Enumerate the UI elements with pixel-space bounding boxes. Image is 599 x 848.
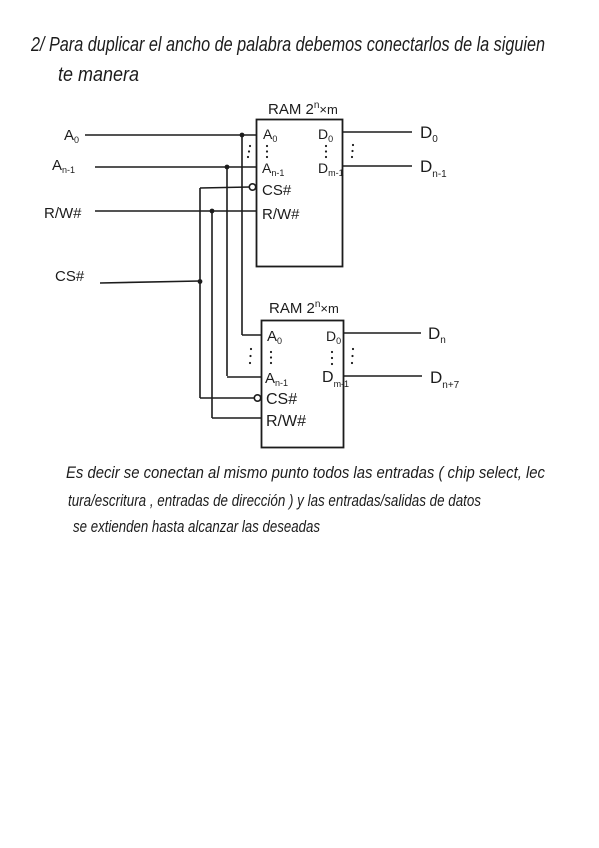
svg-text:D0: D0 — [318, 126, 333, 144]
RAM chip U2 (bottom) box — [262, 321, 344, 448]
dots inside-right U2 — [331, 351, 333, 365]
svg-text:CS#: CS# — [55, 268, 85, 285]
junction An-1 — [225, 165, 230, 170]
dots inside-left U2 — [270, 351, 272, 364]
svg-text:Dm-1: Dm-1 — [322, 369, 349, 389]
vertical bus A0 — [241, 135, 243, 335]
wire CS# label to bus — [100, 281, 200, 283]
svg-text:RAM 2n×m: RAM 2n×m — [268, 100, 338, 118]
svg-text:R/W#: R/W# — [44, 205, 82, 222]
wire U2 Dn+7 output — [343, 375, 422, 377]
inverter bubble U1 CS# — [249, 184, 255, 190]
svg-text:A0: A0 — [263, 126, 277, 144]
wire U1 Dn-1 output — [343, 165, 412, 167]
junction CS# — [198, 279, 203, 284]
wire R/W# to U1 — [95, 210, 256, 212]
svg-text:R/W#: R/W# — [262, 206, 300, 223]
svg-text:te manera: te manera — [58, 64, 139, 86]
svg-text:Dm-1: Dm-1 — [318, 160, 344, 178]
svg-text:Dn+7: Dn+7 — [430, 368, 460, 391]
vertical bus CS# — [199, 188, 201, 398]
svg-text:Dn: Dn — [428, 324, 446, 346]
svg-text:An-1: An-1 — [265, 370, 288, 388]
svg-text:tura/escritura , entradas de d: tura/escritura , entradas de dirección )… — [68, 491, 481, 510]
svg-text:Dn-1: Dn-1 — [420, 157, 447, 180]
RAM chip U1 (top) box — [257, 120, 343, 267]
svg-text:2/ Para duplicar el ancho de p: 2/ Para duplicar el ancho de palabra deb… — [30, 34, 545, 56]
dots inside-right U1 — [325, 145, 327, 158]
vertical bus An-1 — [226, 167, 228, 376]
junction R/W# — [210, 209, 215, 214]
vertical bus R/W# — [211, 211, 213, 418]
svg-text:CS#: CS# — [262, 182, 292, 199]
svg-text:se extienden hasta alcanzar la: se extienden hasta alcanzar las deseadas — [73, 517, 320, 536]
wire A0 to U1 — [85, 134, 256, 136]
wire CS# stub to U1 bubble — [200, 187, 250, 188]
svg-text:An-1: An-1 — [52, 157, 75, 175]
svg-text:RAM 2n×m: RAM 2n×m — [269, 299, 339, 317]
svg-text:R/W#: R/W# — [266, 413, 306, 430]
wire An-1 to U1 — [95, 166, 256, 168]
dots outside-right U1 — [351, 144, 354, 158]
svg-text:An-1: An-1 — [262, 160, 284, 178]
dots outside-left U2 — [249, 348, 252, 364]
svg-text:D0: D0 — [420, 123, 438, 145]
svg-text:A0: A0 — [267, 328, 282, 346]
dots inside-left U1 — [266, 145, 268, 158]
inverter bubble U2 CS# — [254, 395, 260, 401]
wire bus A0 into U2 — [242, 334, 261, 336]
svg-text:D0: D0 — [326, 328, 341, 346]
wire U1 D0 output — [343, 131, 412, 133]
dots outside-right U2 — [351, 348, 354, 364]
junction A0 — [240, 133, 245, 138]
svg-text:A0: A0 — [64, 127, 79, 145]
wire bus An-1 into U2 — [227, 376, 261, 378]
dots outside-left U1 — [247, 145, 251, 158]
wire bus CS# into U2 bubble — [200, 397, 254, 399]
wire bus R/W# into U2 — [212, 417, 261, 419]
svg-text:Es decir se conectan al mismo: Es decir se conectan al mismo punto todo… — [66, 463, 545, 482]
svg-text:CS#: CS# — [266, 391, 297, 408]
wire U2 Dn output — [343, 332, 421, 334]
